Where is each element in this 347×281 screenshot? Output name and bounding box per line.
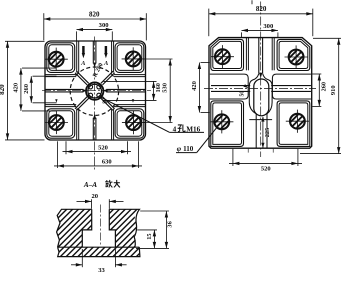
svg-text:300: 300 xyxy=(263,23,274,30)
dimension 520 bottom of left view xyxy=(65,141,67,154)
dimension 530 right side of left view xyxy=(143,58,173,60)
left view rib diagonal NE (double) xyxy=(101,71,113,83)
right view center oval slot xyxy=(254,79,269,116)
dimension 820 top of left view xyxy=(43,13,45,40)
right view center cavity wall left xyxy=(249,74,258,148)
detail slot center line xyxy=(99,205,101,246)
svg-text:820: 820 xyxy=(0,84,6,95)
right view plate outline with chamfered corners xyxy=(209,38,312,149)
dimension 820 left side of left view xyxy=(5,40,45,42)
left view T-slot left xyxy=(45,88,83,90)
detail section profile left block xyxy=(57,209,92,247)
right view horizontal T-slot right xyxy=(271,85,311,87)
svg-text:A–A: A–A xyxy=(83,181,97,189)
detail hatching section xyxy=(16,204,218,260)
left view rib diagonal SE (double) xyxy=(101,98,113,110)
right view bolt hole bottom-left xyxy=(214,114,229,129)
right view bolt hole top-right xyxy=(289,50,304,65)
tick mark on bottom-right circle centerline xyxy=(132,99,134,102)
detail section profile right block xyxy=(109,209,139,247)
detail T-slot neck and step left xyxy=(82,209,91,247)
right view center line horizontal xyxy=(204,88,316,90)
left view bolt hole top-right with hatching xyxy=(126,52,141,67)
left view horizontal channel walls xyxy=(45,74,76,76)
svg-text:530: 530 xyxy=(161,83,168,93)
leader line for dia 110 xyxy=(197,123,221,153)
left view corner pad top-left (double outline) xyxy=(47,43,75,73)
tick mark on bottom-left circle centerline xyxy=(55,99,57,102)
left view corner pad bottom-left xyxy=(47,109,75,138)
glyph da (big) xyxy=(114,182,120,184)
left view vertical channel walls xyxy=(76,41,78,73)
detail bottom band bottom edge xyxy=(58,247,140,256)
svg-text:910: 910 xyxy=(330,85,337,95)
dimension 520 bottom of right view xyxy=(232,149,234,166)
svg-text:50: 50 xyxy=(240,91,246,97)
left view plate outline xyxy=(45,41,146,140)
svg-text:φ: φ xyxy=(177,144,182,153)
right view cavity floor line xyxy=(249,119,272,121)
left view corner pad bottom-right xyxy=(115,109,144,138)
left view rib diagonal SW (double) xyxy=(77,98,89,110)
right view bolt hole top-left xyxy=(215,49,230,64)
svg-text:260: 260 xyxy=(320,82,327,91)
right view middle-left groove xyxy=(210,74,248,99)
right view top T-slot lines xyxy=(258,38,260,74)
left view pitch dashed circle R200 xyxy=(70,67,118,115)
detail T-slot neck and step right xyxy=(109,209,115,247)
dimension 910 far right xyxy=(313,37,341,39)
dimension 300 top of left view xyxy=(76,31,78,40)
svg-text:4: 4 xyxy=(173,125,177,133)
dimension 260 left side xyxy=(33,75,57,77)
right view pad bottom-left xyxy=(211,101,244,146)
left view bolt hole top-left with hatching xyxy=(49,52,64,67)
svg-text:260: 260 xyxy=(23,84,30,94)
dimension 630 bottom of left view xyxy=(56,141,58,168)
right view pad top-right xyxy=(277,39,310,70)
left view T-slot top (section cut path) xyxy=(92,41,94,64)
right view pad top-left (double outline) xyxy=(211,39,244,70)
right view top channel wall lines xyxy=(245,38,247,71)
left view bolt hole bottom-left with hatching xyxy=(49,115,64,130)
left view center boss circles xyxy=(86,82,103,99)
left view T-slot right xyxy=(106,88,145,90)
dimension 420 left of right view xyxy=(201,62,210,64)
right view slot extension marks below plate xyxy=(247,149,249,153)
glyph kong (hole) xyxy=(178,125,181,127)
right view middle-right groove xyxy=(272,74,311,99)
svg-text:820: 820 xyxy=(89,11,100,19)
svg-text:820: 820 xyxy=(256,5,267,13)
right view center line vertical xyxy=(260,2,262,158)
svg-text:630: 630 xyxy=(102,159,112,166)
svg-text:M16: M16 xyxy=(186,125,200,133)
left view center line horizontal xyxy=(42,90,151,92)
right view pad bottom-right xyxy=(277,101,310,146)
section mark A left xyxy=(82,46,84,53)
dimension 820 top of right view xyxy=(208,9,210,37)
svg-text:420: 420 xyxy=(12,83,19,93)
dimension 260 right of right view xyxy=(312,73,321,75)
leader line for 4 holes M16 xyxy=(101,97,169,132)
detail dimension 15 xyxy=(137,229,157,231)
svg-text:33: 33 xyxy=(98,267,105,274)
glyph fang xyxy=(105,181,108,183)
right view horizontal T-slot left xyxy=(211,85,250,87)
dimension 225 xyxy=(262,117,264,148)
left view center line vertical xyxy=(94,37,96,170)
svg-text:15: 15 xyxy=(146,233,153,239)
svg-text:520: 520 xyxy=(261,166,271,173)
left view corner pad top-right xyxy=(115,43,144,73)
dimension 160 right side of left view xyxy=(104,80,157,82)
svg-text:A: A xyxy=(103,60,108,67)
left view bolt hole bottom-right with hatching xyxy=(126,115,141,130)
svg-text:520: 520 xyxy=(98,144,108,151)
svg-text:20: 20 xyxy=(92,193,99,200)
section mark A right xyxy=(105,46,107,53)
detail dimension 36 xyxy=(140,210,169,212)
svg-text:36: 36 xyxy=(167,221,174,227)
dimension 420 left side xyxy=(22,67,57,69)
detail dimension 33 xyxy=(81,249,83,267)
svg-text:A: A xyxy=(80,60,85,67)
detail floor line xyxy=(58,246,140,248)
svg-text:110: 110 xyxy=(183,145,194,153)
left view T-slot bottom xyxy=(92,118,94,140)
label 50 with arrow xyxy=(243,84,248,88)
svg-text:300: 300 xyxy=(99,22,110,29)
svg-text:420: 420 xyxy=(191,81,198,91)
left view center 4 small M16 holes xyxy=(97,93,101,97)
svg-text:80: 80 xyxy=(102,101,108,106)
left view rib diagonal NW (double) xyxy=(77,71,89,83)
right view bolt hole bottom-right xyxy=(290,114,305,129)
dimension 300 top of right view xyxy=(241,32,243,37)
right view center cavity wall right xyxy=(263,74,272,148)
svg-text:225: 225 xyxy=(264,128,271,137)
